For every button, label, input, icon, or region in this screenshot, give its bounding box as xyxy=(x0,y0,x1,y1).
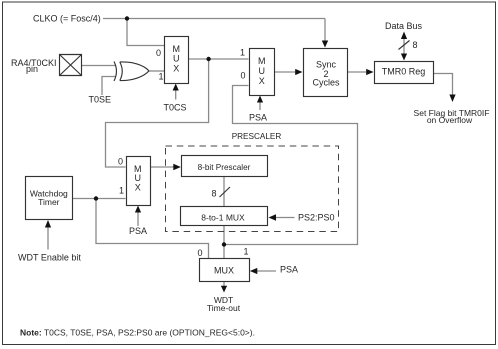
wire MUX3 PSA arrow line xyxy=(137,213,139,227)
dashed prescaler boundary xyxy=(166,146,339,232)
svg-text:U: U xyxy=(258,66,265,76)
svg-text:PSA: PSA xyxy=(280,265,298,275)
svg-text:X: X xyxy=(259,76,265,86)
svg-text:Note: T0CS, T0SE, PSA, PS2:PS0: Note: T0CS, T0SE, PSA, PS2:PS0 are (OPTI… xyxy=(20,328,255,338)
arrowhead T0CS into MUX1 xyxy=(173,84,179,91)
svg-text:U: U xyxy=(173,54,180,64)
svg-text:Timer: Timer xyxy=(38,197,60,207)
wire pin to XOR xyxy=(82,65,117,67)
svg-text:PRESCALER: PRESCALER xyxy=(232,132,282,141)
arrowhead PSA into MUX2 xyxy=(257,96,263,103)
svg-text:Time-out: Time-out xyxy=(207,303,241,313)
wire Sync output to TMR0 xyxy=(348,71,367,73)
slash 8 on data bus xyxy=(399,41,410,50)
arrowhead PS2:PS0 into 8-to-1 MUX xyxy=(269,214,277,220)
mux MUX4 (WDT/PSA) box xyxy=(200,259,250,282)
svg-text:T0CS: T0CS xyxy=(164,103,187,113)
8-bit prescaler box xyxy=(182,156,268,177)
mux MUX2 (PSA) box xyxy=(250,49,275,96)
svg-text:8: 8 xyxy=(212,189,217,199)
watchdog timer box xyxy=(26,177,73,220)
arrowhead into Sync top xyxy=(322,41,328,48)
mux MUX3 (prescaler input) box xyxy=(127,157,151,206)
svg-text:TMR0 Reg: TMR0 Reg xyxy=(382,67,426,77)
wire MUX3 output to 8-bit prescaler xyxy=(150,166,174,168)
svg-text:0: 0 xyxy=(198,248,203,258)
sync box xyxy=(304,49,348,97)
TMR0 reg box xyxy=(375,62,434,84)
XOR gate U1 xyxy=(114,62,149,82)
wire PS2:PS0 arrow line xyxy=(276,217,295,219)
wire bottom MUX output xyxy=(223,282,225,287)
junction dot prescaler output xyxy=(222,242,226,246)
svg-text:on Overflow: on Overflow xyxy=(427,115,473,125)
svg-text:Cycles: Cycles xyxy=(312,78,340,88)
junction dot MUX1 output xyxy=(206,57,210,61)
svg-text:CLKO (= Fosc/4): CLKO (= Fosc/4) xyxy=(33,14,101,24)
wire prescaler loop: 8-to-1 MUX out up to MUX2 input 0 xyxy=(224,86,358,245)
wire WDT enable arrow line xyxy=(47,228,49,250)
wire T0CS arrow line xyxy=(175,90,177,100)
svg-text:PS2:PS0: PS2:PS0 xyxy=(298,213,335,223)
wire WDT output to MUX3 input 1 xyxy=(73,198,126,200)
wire data bus vertical xyxy=(403,39,405,55)
junction dot CLKO line xyxy=(125,16,129,20)
svg-text:U: U xyxy=(135,173,142,183)
wire CLKO drop to Sync box xyxy=(324,19,326,41)
8-to-1 MUX box xyxy=(181,207,268,226)
arrowhead data bus up xyxy=(401,32,407,40)
svg-text:1: 1 xyxy=(119,186,124,196)
arrowhead WDT enable into watchdog xyxy=(45,220,51,228)
wire CLKO drop to MUX1 input 0 xyxy=(127,19,164,46)
wire MUX2 PSA arrow line xyxy=(259,103,261,111)
svg-text:PSA: PSA xyxy=(129,226,147,236)
svg-text:1: 1 xyxy=(244,247,249,257)
svg-text:8: 8 xyxy=(413,40,418,50)
svg-text:pin: pin xyxy=(26,64,38,74)
slash 8 on prescaler bus xyxy=(220,187,231,197)
wire 8-bit prescaler to 8-to-1 MUX xyxy=(223,177,225,207)
arrowhead set flag down xyxy=(449,95,455,103)
wire MUX1 output to MUX2 input 1 xyxy=(188,58,249,60)
wire TMR0 output to flag arrow xyxy=(433,74,453,95)
svg-text:X: X xyxy=(135,183,141,193)
arrowhead Sync out into TMR0 xyxy=(366,69,373,75)
svg-text:M: M xyxy=(172,44,180,54)
svg-text:8-to-1 MUX: 8-to-1 MUX xyxy=(201,213,245,223)
svg-text:PSA: PSA xyxy=(249,113,267,123)
svg-text:Sync: Sync xyxy=(316,60,337,70)
arrowhead data bus down into TMR0 xyxy=(401,54,407,61)
arrowhead MUX3 out into prescaler xyxy=(173,164,181,170)
arrowhead PSA into MUX3 xyxy=(135,206,141,213)
svg-text:0: 0 xyxy=(156,48,161,58)
arrowhead PSA into bottom MUX xyxy=(250,268,257,274)
mux MUX1 (T0CS) box xyxy=(165,37,189,84)
svg-text:T0SE: T0SE xyxy=(89,95,112,105)
svg-text:WDT Enable bit: WDT Enable bit xyxy=(18,253,81,263)
pin box RA4/T0CKI xyxy=(60,55,82,76)
wire T0SE to XOR xyxy=(102,77,116,96)
arrowhead MUX2 out into Sync xyxy=(295,69,302,75)
svg-text:1: 1 xyxy=(240,48,245,58)
svg-text:0: 0 xyxy=(118,157,123,167)
wire MUX2 output to Sync xyxy=(275,71,296,73)
svg-text:Data Bus: Data Bus xyxy=(385,21,423,31)
svg-text:1: 1 xyxy=(159,72,164,82)
wire 8-to-1 MUX down to bottom MUX input 1 xyxy=(223,226,225,258)
svg-text:M: M xyxy=(258,56,266,66)
svg-text:MUX: MUX xyxy=(214,266,234,276)
svg-text:X: X xyxy=(173,64,179,74)
arrowhead WDT time-out down xyxy=(221,286,227,293)
junction dot WDT output xyxy=(94,196,98,200)
wire WDT down to bottom MUX input 0 xyxy=(96,199,209,259)
wire CLKO horizontal xyxy=(103,18,325,20)
svg-text:8-bit Prescaler: 8-bit Prescaler xyxy=(198,163,251,172)
wire MUX1 output down to MUX3 input 0 xyxy=(106,59,209,167)
wire XOR output to MUX1 input 1 xyxy=(149,70,164,72)
svg-text:0: 0 xyxy=(241,71,246,81)
wire bottom MUX PSA arrow line xyxy=(257,270,276,272)
